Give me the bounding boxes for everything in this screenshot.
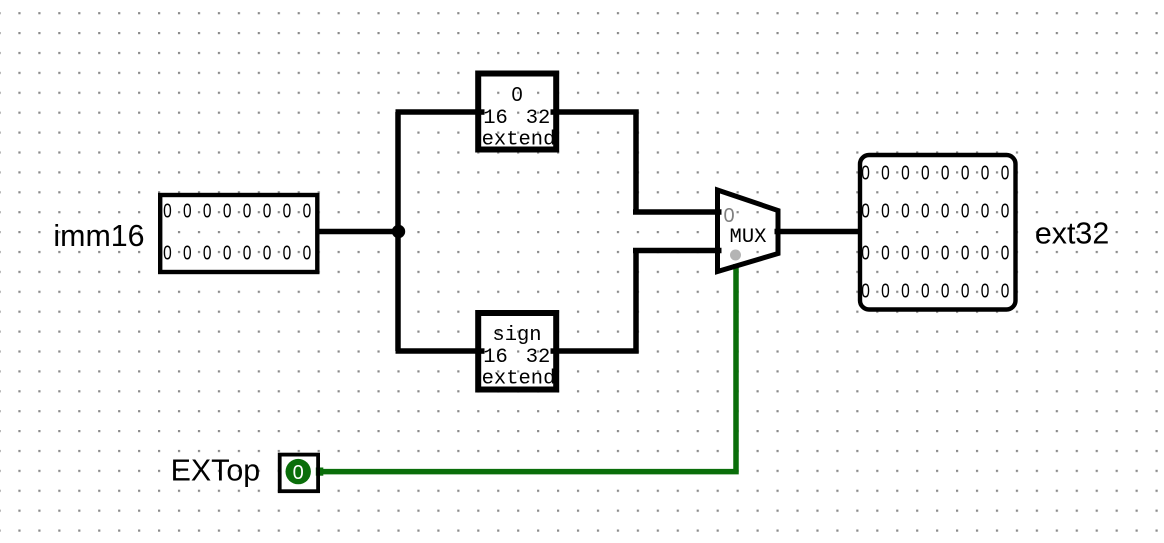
svg-text:0: 0 [981,243,990,265]
input pin EXTop (1-bit, value 0) [280,455,318,492]
svg-text:0: 0 [961,201,970,223]
svg-text:0: 0 [921,243,930,265]
svg-text:0: 0 [961,243,970,265]
svg-text:0: 0 [243,201,252,223]
svg-text:0: 0 [263,243,272,265]
svg-text:0: 0 [303,201,312,223]
wire zero-extend output to mux input 0 [556,109,722,212]
wire vertical trunk at x=398 [395,112,401,351]
input pin imm16 (16-bit) [160,195,317,272]
svg-text:0: 0 [881,201,890,223]
wire EXTop to mux select (green, value 0) [319,264,736,474]
svg-text:0: 0 [921,281,930,303]
svg-text:0: 0 [901,201,910,223]
port nubs zero-extend [479,109,485,115]
svg-text:0: 0 [941,281,950,303]
wire mux output to ext32 [775,229,861,235]
wire junction to sign-extend input [396,348,480,354]
port nubs sign-extend [479,348,485,354]
subcircuit sign-extend (sign 16->32 extend) [478,313,556,391]
svg-text:0: 0 [511,84,522,106]
svg-text:0: 0 [1001,201,1010,223]
svg-text:0: 0 [941,201,950,223]
svg-text:0: 0 [881,163,890,185]
svg-text:0: 0 [921,163,930,185]
svg-text:0: 0 [981,281,990,303]
svg-text:MUX: MUX [730,226,767,249]
svg-text:0: 0 [283,201,292,223]
svg-text:0: 0 [723,205,734,227]
svg-text:0: 0 [861,243,870,265]
output pin ext32 (32-bit) [860,155,1016,310]
svg-text:ext32: ext32 [1035,216,1109,250]
subcircuit zero-extend (0 16->32 extend) [478,74,556,152]
svg-text:0: 0 [881,243,890,265]
svg-text:0: 0 [861,201,870,223]
svg-text:0: 0 [901,243,910,265]
svg-text:extend: extend [482,129,556,152]
svg-text:extend: extend [482,368,556,391]
svg-text:0: 0 [283,243,292,265]
svg-text:0: 0 [881,281,890,303]
wire imm16 output to junction [317,229,399,235]
mux MUX [718,190,779,272]
svg-text:0: 0 [981,201,990,223]
svg-text:0: 0 [921,201,930,223]
svg-text:EXTop: EXTop [171,454,261,488]
svg-text:0: 0 [941,243,950,265]
svg-text:0: 0 [203,201,212,223]
svg-text:32: 32 [526,346,551,369]
svg-text:0: 0 [303,243,312,265]
svg-text:0: 0 [1001,281,1010,303]
svg-text:0: 0 [223,201,232,223]
svg-text:0: 0 [183,243,192,265]
svg-text:0: 0 [1001,163,1010,185]
svg-text:0: 0 [961,281,970,303]
svg-text:0: 0 [981,163,990,185]
svg-text:0: 0 [243,243,252,265]
svg-text:32: 32 [526,107,551,130]
svg-text:0: 0 [1001,243,1010,265]
node junction at imm16 fanout [392,225,405,238]
svg-text:16: 16 [483,346,508,369]
svg-text:0: 0 [861,163,870,185]
svg-text:sign: sign [492,324,541,347]
svg-text:imm16: imm16 [53,219,144,253]
svg-text:0: 0 [293,462,304,484]
svg-text:0: 0 [183,201,192,223]
wire junction to zero-extend input [396,109,480,115]
svg-text:0: 0 [263,201,272,223]
svg-text:0: 0 [901,281,910,303]
svg-text:0: 0 [163,201,172,223]
svg-text:0: 0 [861,281,870,303]
svg-text:0: 0 [961,163,970,185]
svg-text:0: 0 [901,163,910,185]
svg-text:16: 16 [483,107,508,130]
svg-text:0: 0 [203,243,212,265]
wire sign-extend output to mux input 1 [556,251,722,354]
svg-text:0: 0 [163,243,172,265]
svg-text:0: 0 [941,163,950,185]
svg-text:0: 0 [223,243,232,265]
